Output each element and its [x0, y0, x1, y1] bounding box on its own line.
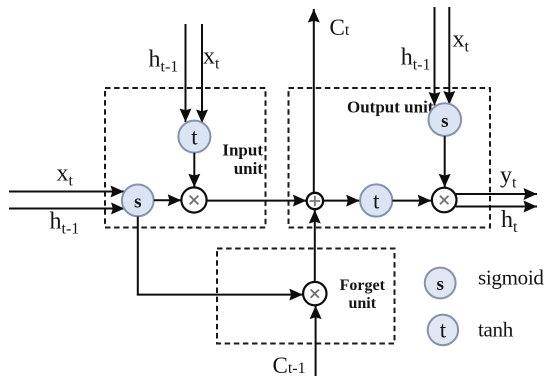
wire: s2 down to x2 — [444, 136, 446, 187]
svg-text:unit: unit — [349, 295, 377, 312]
legend sigmoid node — [425, 268, 456, 299]
node x1 multiply circle (input unit) — [181, 187, 206, 212]
svg-text:s: s — [441, 111, 448, 132]
wire: x1 to plus node — [207, 200, 307, 202]
node plus adder — [307, 193, 323, 209]
svg-text:Input: Input — [222, 140, 263, 159]
output unit dashed box — [289, 88, 491, 228]
wire: C_t-1 up into x3 — [315, 306, 317, 376]
legend tanh node — [428, 315, 458, 345]
svg-text:t: t — [191, 125, 198, 150]
svg-text:unit: unit — [234, 159, 264, 178]
node s2 sigmoid circle (output unit) — [429, 103, 462, 136]
wire: h_t-1 input to node s1 — [9, 208, 125, 210]
node s1 sigmoid circle (input unit) — [122, 185, 154, 217]
wire: x3 up to plus — [314, 210, 316, 282]
wire: s1 to x1 — [154, 199, 181, 201]
node x2 multiply circle (output) — [432, 188, 457, 213]
wire: plus up to Ct output — [313, 9, 315, 193]
svg-text:s: s — [436, 274, 443, 295]
svg-text:Forget: Forget — [340, 277, 386, 294]
svg-text:t: t — [440, 318, 447, 343]
wire: plus to t2 — [323, 200, 359, 202]
node x3 multiply circle (forget unit) — [303, 282, 326, 305]
wire: t1 to x1 — [193, 153, 195, 187]
wire: h_t-1 vertical into s2 — [434, 7, 436, 106]
svg-text:Output unit: Output unit — [347, 98, 434, 117]
wire: x_t vertical into s2 — [448, 7, 450, 105]
node t2 tanh circle — [360, 184, 392, 216]
wire: x2 to h_t output — [456, 206, 537, 208]
wire: x2 to y_t output — [456, 193, 537, 195]
svg-text:s: s — [134, 192, 141, 213]
wire: s1 down and right to x3 — [138, 217, 303, 295]
wire: h_t-1 vertical into t1 — [185, 24, 187, 122]
input unit dashed box — [105, 88, 266, 228]
wire: t2 to x2 — [392, 200, 431, 202]
wire: x_t input to node s1 — [9, 191, 124, 193]
svg-text:tanh: tanh — [478, 318, 514, 342]
wire: x_t vertical into t1 — [201, 24, 203, 123]
svg-text:t: t — [373, 189, 380, 214]
svg-text:sigmoid: sigmoid — [478, 266, 544, 290]
node t1 tanh circle (input unit) — [178, 121, 210, 153]
forget unit dashed box — [217, 249, 395, 344]
